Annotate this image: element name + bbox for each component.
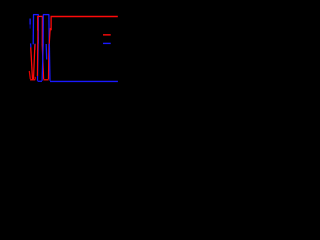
top plot: blue partial edge at left	[29, 19, 31, 25]
top plot: blue partial edge dim lower part	[29, 25, 31, 29]
bottom plot: red descent into low segment 3	[42, 44, 43, 80]
bottom plot: red descent stroke 2	[34, 44, 35, 79]
bottom plot: red low segment 1	[30, 79, 35, 81]
bottom plot: blue long low line to right	[50, 80, 118, 82]
bottom plot: blue ascent from low segment 2	[42, 44, 43, 81]
legend: blue sample line	[103, 42, 111, 44]
bottom plot: blue long stroke with low segment 2	[38, 44, 43, 82]
top plot: blue rising edge 2	[42, 15, 44, 44]
top plot: red rising edge 2	[50, 17, 52, 31]
bottom plot: blue mate of purple cap	[34, 44, 36, 50]
top plot: blue rising edge 1	[32, 15, 34, 45]
bottom plot: blue final descent	[48, 44, 51, 81]
top plot: red rising edge 1	[37, 16, 39, 30]
top plot: blue high segment 1	[33, 14, 39, 16]
bottom plot: blue stroke upper half	[45, 44, 48, 60]
top plot: blue falling edge 2	[48, 15, 50, 44]
bottom plot: red ascent stroke 1	[31, 47, 33, 79]
top plot: red long high line to right	[51, 16, 118, 18]
bottom plot: red middle-band slant stroke	[49, 28, 50, 44]
background	[0, 0, 140, 98]
legend: red sample line	[103, 34, 111, 36]
top plot: red falling edge 1	[41, 16, 43, 43]
top plot: red high segment 1	[37, 15, 43, 17]
bottom plot: blue cap stroke over first bar	[30, 43, 32, 47]
bottom plot: red up stub right of low segment 1	[34, 77, 36, 80]
bottom plot: red mate of overlapped purple bar	[36, 30, 38, 77]
top plot: blue high segment 2	[43, 14, 49, 16]
bottom plot: red entry down-stroke at left	[29, 71, 30, 79]
bottom plot: red ascent from low segment 3	[48, 44, 50, 79]
top plot: blue falling edge 1	[37, 15, 39, 44]
bottom plot: red low segment 3	[43, 79, 48, 81]
